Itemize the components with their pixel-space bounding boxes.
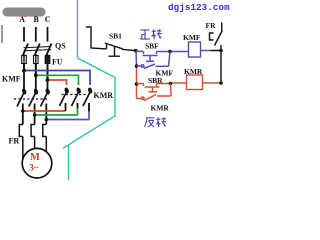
svg-text:FU: FU xyxy=(52,58,63,67)
svg-text:SBR: SBR xyxy=(148,76,163,85)
svg-text:A: A xyxy=(19,15,25,24)
svg-text:M: M xyxy=(30,152,40,163)
svg-text:SB1: SB1 xyxy=(109,32,122,41)
svg-text:C: C xyxy=(45,15,51,24)
svg-text:FR: FR xyxy=(206,21,217,30)
svg-text:QS: QS xyxy=(55,42,66,51)
svg-text:B: B xyxy=(34,15,40,24)
svg-text:KMF: KMF xyxy=(183,33,201,42)
svg-text:KMF: KMF xyxy=(2,75,21,84)
svg-text:FR: FR xyxy=(9,137,20,146)
svg-text:KMR: KMR xyxy=(94,91,114,100)
svg-text:3~: 3~ xyxy=(29,164,39,174)
svg-text:dgjs123.com: dgjs123.com xyxy=(168,2,230,13)
svg-text:KMR: KMR xyxy=(184,67,203,76)
svg-text:KMR: KMR xyxy=(151,104,170,113)
svg-text:SBF: SBF xyxy=(145,42,159,51)
